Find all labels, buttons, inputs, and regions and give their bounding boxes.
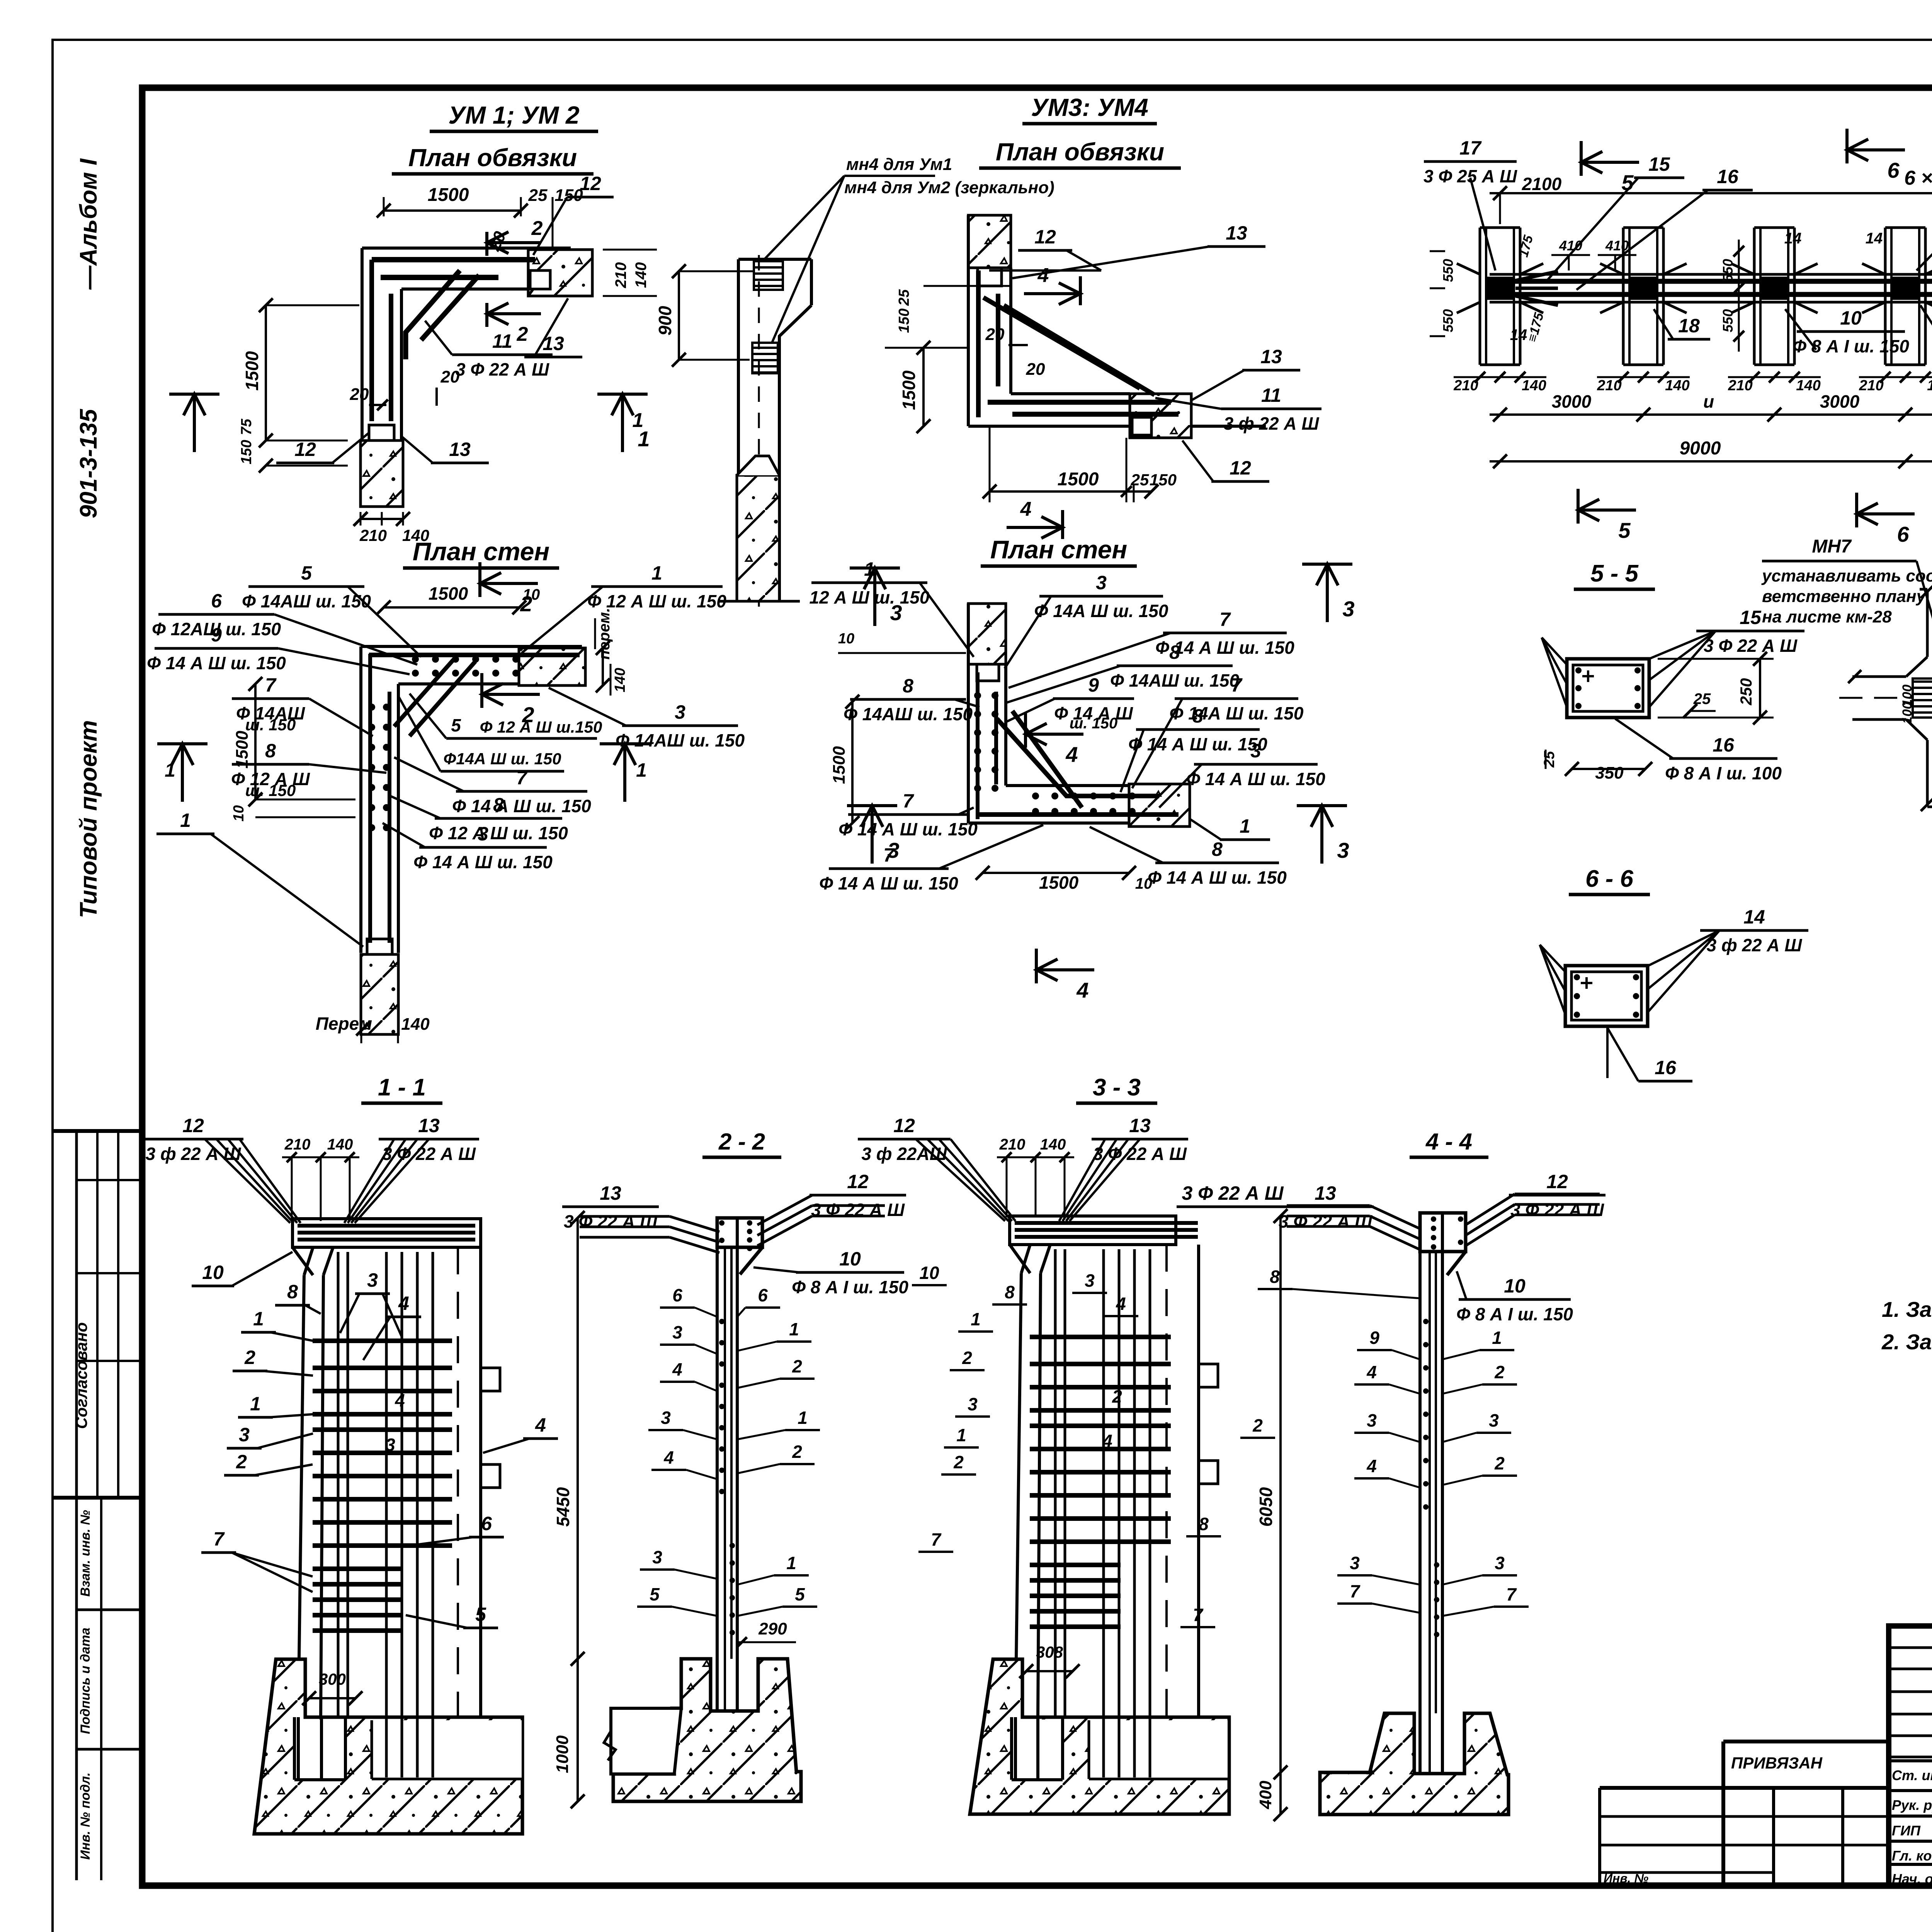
svg-text:2: 2 <box>792 1356 802 1376</box>
svg-text:7: 7 <box>1219 609 1231 630</box>
svg-text:9: 9 <box>1088 674 1099 696</box>
svg-text:20: 20 <box>1026 360 1045 379</box>
svg-text:9: 9 <box>1369 1328 1379 1348</box>
svg-text:16: 16 <box>1713 734 1735 756</box>
svg-text:140: 140 <box>1665 378 1689 394</box>
svg-text:210: 210 <box>1453 378 1478 394</box>
svg-text:2100: 2100 <box>1522 174 1562 194</box>
svg-text:900: 900 <box>655 306 675 335</box>
svg-text:13: 13 <box>600 1182 621 1204</box>
svg-text:3: 3 <box>1342 597 1354 621</box>
svg-text:25: 25 <box>896 289 912 306</box>
svg-text:Ф 14 А Ш ш. 150: Ф 14 А Ш ш. 150 <box>147 653 286 673</box>
svg-text:3000: 3000 <box>1552 391 1592 412</box>
svg-text:210: 210 <box>359 526 387 544</box>
svg-text:8: 8 <box>903 675 913 697</box>
svg-text:6: 6 <box>1897 522 1909 546</box>
svg-text:140: 140 <box>612 668 628 692</box>
svg-text:Взам. инв. №: Взам. инв. № <box>78 1510 93 1597</box>
svg-text:5: 5 <box>451 715 461 735</box>
svg-text:2: 2 <box>1112 1386 1122 1406</box>
svg-text:20: 20 <box>350 385 369 404</box>
svg-text:мн4 для Ум1: мн4 для Ум1 <box>846 155 952 174</box>
svg-text:Ф 14 А Ш ш. 150: Ф 14 А Ш ш. 150 <box>452 796 591 816</box>
svg-text:7: 7 <box>516 767 528 789</box>
svg-text:4: 4 <box>1065 742 1078 767</box>
svg-text:и: и <box>1703 391 1714 412</box>
svg-text:8: 8 <box>1270 1267 1280 1287</box>
svg-text:План стен: План стен <box>413 537 550 566</box>
svg-text:8: 8 <box>493 794 504 816</box>
svg-text:140: 140 <box>401 1015 430 1034</box>
svg-text:150: 150 <box>238 440 255 464</box>
svg-text:12: 12 <box>893 1115 915 1136</box>
svg-text:13: 13 <box>1226 222 1247 244</box>
svg-text:6: 6 <box>758 1285 768 1305</box>
svg-text:4: 4 <box>1366 1362 1377 1382</box>
svg-text:140: 140 <box>1522 378 1546 394</box>
svg-text:210: 210 <box>999 1136 1026 1153</box>
svg-text:3: 3 <box>1489 1410 1499 1430</box>
svg-text:150: 150 <box>554 186 583 205</box>
svg-text:План обвязки: План обвязки <box>408 144 577 172</box>
svg-text:Инв. № подл.: Инв. № подл. <box>78 1772 93 1860</box>
svg-text:7: 7 <box>1350 1581 1361 1601</box>
svg-text:4: 4 <box>1116 1294 1126 1314</box>
svg-text:План обвязки: План обвязки <box>996 138 1164 166</box>
svg-text:3 Ф 22 А Ш: 3 Ф 22 А Ш <box>456 359 549 379</box>
svg-text:3000: 3000 <box>1820 391 1860 412</box>
svg-text:3: 3 <box>661 1408 671 1428</box>
svg-text:2: 2 <box>962 1348 972 1368</box>
svg-text:9000: 9000 <box>1680 438 1721 459</box>
svg-text:1500: 1500 <box>830 746 849 784</box>
svg-text:290: 290 <box>758 1619 787 1638</box>
svg-text:12: 12 <box>1230 457 1251 479</box>
svg-text:1000: 1000 <box>553 1735 572 1773</box>
svg-text:25: 25 <box>528 186 548 205</box>
svg-text:8: 8 <box>287 1281 298 1303</box>
svg-text:10: 10 <box>1840 307 1862 329</box>
svg-text:25: 25 <box>1541 751 1558 768</box>
svg-text:1: 1 <box>633 409 644 432</box>
svg-text:210: 210 <box>284 1136 311 1153</box>
svg-text:2: 2 <box>522 702 534 727</box>
svg-text:140: 140 <box>633 262 650 288</box>
svg-text:210: 210 <box>1597 378 1621 394</box>
svg-text:1: 1 <box>1492 1328 1502 1348</box>
svg-text:2: 2 <box>1494 1362 1505 1382</box>
svg-text:УМ3: УМ4: УМ3: УМ4 <box>1031 94 1148 121</box>
svg-text:Инв. №: Инв. № <box>1604 1871 1648 1885</box>
svg-text:3 Ф 22 А Ш: 3 Ф 22 А Ш <box>1510 1200 1604 1220</box>
svg-text:3: 3 <box>367 1269 378 1291</box>
svg-text:14: 14 <box>1866 230 1883 247</box>
svg-text:2: 2 <box>236 1451 247 1473</box>
svg-text:15: 15 <box>1648 153 1670 175</box>
svg-text:4: 4 <box>398 1293 409 1314</box>
svg-text:8: 8 <box>265 740 276 762</box>
svg-text:3: 3 <box>1096 572 1107 594</box>
svg-text:План стен: План стен <box>990 535 1128 564</box>
svg-text:350: 350 <box>1595 764 1624 782</box>
svg-text:3: 3 <box>239 1424 250 1446</box>
svg-text:150: 150 <box>1150 471 1177 489</box>
svg-text:1: 1 <box>956 1425 966 1445</box>
svg-text:7: 7 <box>213 1528 225 1550</box>
svg-text:Ф 14А Ш ш. 150: Ф 14А Ш ш. 150 <box>1034 601 1168 621</box>
svg-text:7: 7 <box>265 674 277 696</box>
svg-text:550: 550 <box>1720 259 1736 282</box>
svg-text:8: 8 <box>1212 838 1223 860</box>
svg-text:1. Закладные элементы см.: 1. Закладные элементы см. на листах км-2… <box>1882 1297 1932 1321</box>
svg-text:8: 8 <box>1199 1514 1209 1534</box>
svg-text:3: 3 <box>652 1547 662 1567</box>
svg-text:3: 3 <box>1085 1270 1095 1291</box>
svg-text:ш. 150: ш. 150 <box>245 781 296 799</box>
svg-text:6050: 6050 <box>1256 1487 1276 1527</box>
svg-text:3: 3 <box>1367 1410 1377 1430</box>
svg-text:7: 7 <box>931 1529 942 1549</box>
svg-text:2: 2 <box>1252 1415 1263 1435</box>
svg-text:4: 4 <box>672 1359 682 1379</box>
svg-text:9: 9 <box>211 624 222 646</box>
svg-text:1: 1 <box>789 1319 799 1339</box>
svg-text:12: 12 <box>1034 226 1056 248</box>
svg-text:2: 2 <box>531 217 543 240</box>
svg-text:12 А Ш ш. 150: 12 А Ш ш. 150 <box>810 587 930 607</box>
svg-text:Ф 12 А Ш ш.150: Ф 12 А Ш ш.150 <box>480 718 602 736</box>
svg-text:3: 3 <box>1495 1553 1505 1573</box>
svg-text:3 - 3: 3 - 3 <box>1093 1074 1141 1101</box>
svg-text:1500: 1500 <box>242 351 262 391</box>
svg-text:1500: 1500 <box>233 731 252 769</box>
svg-text:4: 4 <box>663 1447 674 1468</box>
svg-text:1: 1 <box>165 759 175 781</box>
svg-text:5: 5 <box>795 1584 805 1604</box>
svg-text:3: 3 <box>1250 740 1261 762</box>
svg-text:10: 10 <box>838 631 854 647</box>
svg-text:20: 20 <box>440 367 460 386</box>
svg-text:мн4 для Ум2 (зеркально): мн4 для Ум2 (зеркально) <box>844 178 1054 197</box>
svg-text:Ф14А Ш ш. 150: Ф14А Ш ш. 150 <box>443 750 561 768</box>
svg-text:ПРИВЯЗАН: ПРИВЯЗАН <box>1731 1754 1823 1772</box>
svg-text:150: 150 <box>896 308 912 333</box>
svg-text:400: 400 <box>1256 1781 1275 1810</box>
svg-text:Ф 8 А I ш. 150: Ф 8 А I ш. 150 <box>1456 1304 1573 1324</box>
svg-text:8: 8 <box>1192 705 1203 727</box>
svg-text:Нач. отд: Нач. отд <box>1892 1871 1932 1887</box>
svg-text:1500: 1500 <box>1039 872 1079 893</box>
svg-text:10: 10 <box>1135 875 1153 892</box>
svg-text:Ф 14 А Ш ш. 150: Ф 14 А Ш ш. 150 <box>1148 867 1287 888</box>
svg-text:3: 3 <box>385 1435 395 1455</box>
svg-text:Ф 14АШ ш. 150: Ф 14АШ ш. 150 <box>1110 670 1240 690</box>
svg-text:Гл. констр.: Гл. констр. <box>1892 1848 1932 1864</box>
svg-text:1: 1 <box>250 1393 261 1415</box>
svg-text:4: 4 <box>1076 978 1088 1002</box>
svg-text:5: 5 <box>650 1584 660 1604</box>
svg-text:3 Ф 22 А Ш: 3 Ф 22 А Ш <box>1182 1182 1284 1204</box>
svg-text:Ф 14 А Ш ш. 150: Ф 14 А Ш ш. 150 <box>819 873 958 893</box>
svg-text:17: 17 <box>1459 137 1482 159</box>
svg-text:8: 8 <box>1005 1282 1015 1302</box>
svg-text:1: 1 <box>636 759 647 781</box>
svg-text:550: 550 <box>1720 309 1736 332</box>
svg-text:1: 1 <box>798 1408 808 1428</box>
svg-text:14: 14 <box>1743 906 1765 928</box>
svg-text:6: 6 <box>1887 158 1900 182</box>
svg-text:устанавливать соот-: устанавливать соот- <box>1761 566 1932 585</box>
svg-text:210: 210 <box>612 262 629 289</box>
svg-text:75: 75 <box>238 418 255 435</box>
svg-text:3 Ф 22 А Ш: 3 Ф 22 А Ш <box>1279 1211 1372 1231</box>
svg-text:Рук. рр.: Рук. рр. <box>1892 1797 1932 1813</box>
svg-text:550: 550 <box>1440 259 1456 282</box>
svg-text:16: 16 <box>1717 166 1739 187</box>
svg-text:ГИП: ГИП <box>1892 1823 1921 1838</box>
svg-text:140: 140 <box>327 1136 353 1153</box>
svg-text:Ф 14 А Ш ш. 150: Ф 14 А Ш ш. 150 <box>1186 769 1325 789</box>
svg-text:Подпись и дата: Подпись и дата <box>78 1628 93 1734</box>
svg-text:1: 1 <box>651 562 662 584</box>
svg-text:3: 3 <box>887 838 899 862</box>
svg-text:410: 410 <box>1605 238 1629 253</box>
svg-text:МН7: МН7 <box>1812 536 1852 557</box>
svg-text:Ф 12 А Ш ш. 150: Ф 12 А Ш ш. 150 <box>429 823 568 843</box>
svg-text:7: 7 <box>1231 674 1243 696</box>
svg-text:140: 140 <box>1040 1136 1066 1153</box>
svg-text:2: 2 <box>953 1452 964 1472</box>
svg-text:Ф 8 А I ш. 100: Ф 8 А I ш. 100 <box>1665 763 1782 783</box>
svg-text:3 ф 22 А Ш: 3 ф 22 А Ш <box>1224 413 1320 434</box>
svg-text:Перем: Перем <box>316 1014 372 1034</box>
svg-text:8: 8 <box>1169 641 1180 663</box>
svg-text:Ф 8 А I ш. 150: Ф 8 А I ш. 150 <box>792 1277 908 1297</box>
svg-text:Ф 14АШ ш. 150: Ф 14АШ ш. 150 <box>844 704 973 724</box>
svg-text:13: 13 <box>1260 346 1282 367</box>
svg-text:250: 250 <box>1737 678 1755 706</box>
svg-text:2 - 2: 2 - 2 <box>718 1129 765 1155</box>
svg-text:2: 2 <box>1494 1453 1505 1473</box>
svg-text:14: 14 <box>1784 230 1802 247</box>
svg-text:15: 15 <box>1740 607 1762 628</box>
svg-text:Ф 14 А Ш ш. 150: Ф 14 А Ш ш. 150 <box>413 852 553 872</box>
svg-text:4: 4 <box>1102 1431 1112 1451</box>
svg-text:1: 1 <box>971 1309 981 1329</box>
svg-text:100: 100 <box>1900 702 1915 724</box>
svg-text:4: 4 <box>395 1390 405 1410</box>
svg-text:1: 1 <box>253 1308 264 1330</box>
svg-text:6 - 6: 6 - 6 <box>1585 866 1634 892</box>
svg-text:Ф 14 А Ш ш. 150: Ф 14 А Ш ш. 150 <box>838 819 978 839</box>
svg-text:6 × 5300 = 31800: 6 × 5300 = 31800 <box>1904 167 1932 189</box>
svg-text:1: 1 <box>786 1553 796 1573</box>
svg-text:4 - 4: 4 - 4 <box>1425 1129 1472 1155</box>
svg-text:550: 550 <box>1440 309 1456 332</box>
svg-text:на листе км-28: на листе км-28 <box>1762 607 1892 626</box>
svg-text:140: 140 <box>1927 378 1932 394</box>
svg-text:Ф 14 А Ш ш. 150: Ф 14 А Ш ш. 150 <box>1128 734 1267 754</box>
svg-text:140: 140 <box>1796 378 1820 394</box>
svg-text:5: 5 <box>301 562 312 584</box>
svg-text:1500: 1500 <box>428 185 469 205</box>
svg-text:10: 10 <box>202 1262 224 1283</box>
svg-text:901-3-135: 901-3-135 <box>75 408 102 518</box>
svg-text:3: 3 <box>675 701 685 723</box>
svg-text:3 Ф 25 А Ш: 3 Ф 25 А Ш <box>1423 166 1517 186</box>
svg-text:5: 5 <box>475 1604 486 1625</box>
svg-text:18: 18 <box>1678 315 1700 337</box>
svg-text:2: 2 <box>792 1442 802 1462</box>
svg-text:7: 7 <box>1193 1605 1204 1625</box>
svg-text:Ф 14АШ ш. 150: Ф 14АШ ш. 150 <box>616 730 745 750</box>
svg-text:7: 7 <box>903 790 914 812</box>
svg-text:Ф 8 А I ш. 150: Ф 8 А I ш. 150 <box>1793 336 1909 356</box>
svg-text:3 Ф 22 А Ш: 3 Ф 22 А Ш <box>1704 636 1798 656</box>
svg-text:12: 12 <box>580 173 601 194</box>
svg-text:210: 210 <box>1728 378 1752 394</box>
svg-text:6: 6 <box>481 1513 492 1534</box>
svg-text:Ф 14АШ ш. 150: Ф 14АШ ш. 150 <box>242 591 371 611</box>
svg-text:1: 1 <box>1240 815 1250 837</box>
svg-text:УМ 1; УМ 2: УМ 1; УМ 2 <box>448 101 579 129</box>
svg-text:1500: 1500 <box>429 583 468 604</box>
svg-text:Ст. инж.: Ст. инж. <box>1892 1767 1932 1783</box>
svg-text:3: 3 <box>1350 1553 1360 1573</box>
svg-text:ветственно плану: ветственно плану <box>1762 587 1927 606</box>
svg-text:10: 10 <box>839 1248 861 1270</box>
svg-text:12: 12 <box>1546 1171 1568 1192</box>
svg-text:300: 300 <box>319 1670 346 1688</box>
svg-text:10: 10 <box>231 805 247 821</box>
svg-text:4: 4 <box>1037 264 1049 287</box>
svg-text:3: 3 <box>478 823 488 845</box>
svg-text:3 ф 22 А Ш: 3 ф 22 А Ш <box>1707 935 1803 955</box>
svg-text:3: 3 <box>968 1394 978 1414</box>
svg-text:16: 16 <box>1655 1057 1677 1078</box>
svg-text:12: 12 <box>847 1171 869 1192</box>
svg-text:25: 25 <box>1131 471 1149 489</box>
svg-text:4: 4 <box>535 1414 546 1436</box>
svg-text:12: 12 <box>294 439 316 460</box>
svg-text:1: 1 <box>864 558 875 580</box>
svg-text:3: 3 <box>1337 838 1349 862</box>
svg-text:4: 4 <box>1366 1456 1377 1476</box>
svg-text:ш. 150: ш. 150 <box>1070 715 1118 732</box>
svg-text:10: 10 <box>919 1263 939 1283</box>
svg-text:210: 210 <box>1859 378 1883 394</box>
svg-text:6: 6 <box>672 1285 682 1305</box>
svg-text:11: 11 <box>492 330 512 352</box>
svg-text:20: 20 <box>985 325 1005 344</box>
svg-text:3: 3 <box>672 1322 682 1342</box>
svg-text:13: 13 <box>449 439 471 460</box>
svg-text:4: 4 <box>1020 498 1032 520</box>
svg-text:—Альбом I: —Альбом I <box>75 158 102 290</box>
svg-text:Ф 14А Ш ш. 150: Ф 14А Ш ш. 150 <box>1170 703 1304 723</box>
svg-text:1 - 1: 1 - 1 <box>378 1074 426 1101</box>
svg-text:ш. 150: ш. 150 <box>245 716 296 734</box>
svg-text:5: 5 <box>1621 170 1634 195</box>
svg-text:Типовой проект: Типовой проект <box>75 720 102 918</box>
svg-text:13: 13 <box>1129 1115 1151 1136</box>
svg-text:14: 14 <box>1510 327 1527 344</box>
svg-text:2. Защитный слой бетона: 2. Защитный слой бетона до арматуры - 10… <box>1881 1330 1932 1354</box>
svg-text:1500: 1500 <box>1058 469 1099 490</box>
svg-text:13: 13 <box>418 1115 440 1136</box>
svg-text:12: 12 <box>182 1115 204 1136</box>
svg-text:7: 7 <box>1506 1584 1517 1604</box>
svg-text:13: 13 <box>1315 1182 1336 1204</box>
svg-text:1: 1 <box>180 810 191 831</box>
svg-text:1500: 1500 <box>899 370 919 410</box>
svg-text:Согласовано: Согласовано <box>72 1322 90 1429</box>
svg-text:6: 6 <box>211 590 222 612</box>
svg-text:10: 10 <box>1504 1275 1526 1297</box>
svg-text:2: 2 <box>517 323 528 345</box>
svg-text:5: 5 <box>1618 518 1631 543</box>
svg-text:308: 308 <box>1036 1643 1063 1661</box>
svg-text:5450: 5450 <box>553 1487 573 1527</box>
svg-text:2: 2 <box>520 592 532 616</box>
svg-text:5 - 5: 5 - 5 <box>1590 560 1639 587</box>
svg-text:11: 11 <box>1261 384 1281 406</box>
svg-text:2: 2 <box>244 1347 255 1368</box>
